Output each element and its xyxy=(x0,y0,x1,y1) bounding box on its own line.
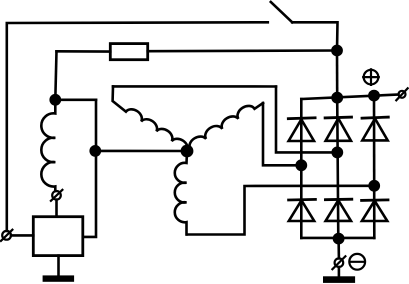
wire: minus bus to ground terminal xyxy=(337,239,340,259)
wire: corner at resistor line down to field winding node xyxy=(55,51,56,100)
wire: resistor line right segment xyxy=(148,49,337,52)
stator phase A winding (upper-left diagonal coil) xyxy=(113,86,188,151)
wire: left outer line (top-left corner down to regulator terminal) xyxy=(7,22,268,231)
wire: terminal to ground xyxy=(338,267,341,278)
node: plus bus col 2 xyxy=(331,92,343,104)
plus bus (top of rectifier) xyxy=(301,95,398,100)
node: regulator sense junction xyxy=(89,145,101,157)
diode column 3 vertical xyxy=(373,96,376,238)
node: phase A to col 2 xyxy=(331,147,343,159)
terminal (plus output) xyxy=(396,88,407,100)
switch SA blade xyxy=(271,2,292,22)
node: plus bus col 3 xyxy=(368,90,380,102)
terminal (minus output) xyxy=(332,256,345,269)
field winding (rotor excitation coil) xyxy=(41,100,55,191)
wire: resistor line left segment xyxy=(57,50,111,53)
diode VD1 (top row, col 1) xyxy=(288,118,315,141)
diode column 2 vertical xyxy=(337,98,338,238)
stator phase B winding (upper-right diagonal coil) xyxy=(189,103,263,149)
wire: terminal to regulator top xyxy=(55,200,58,217)
resistor R xyxy=(110,44,147,60)
wire: phase C to right diode column xyxy=(187,186,374,235)
wire: phase A top line to right corner xyxy=(113,85,276,88)
minus bus (bottom of rectifier) xyxy=(301,237,374,240)
wire: mid node to star point xyxy=(95,150,187,153)
node: phase B to col 1 xyxy=(295,159,307,171)
wire: switch right contact to corner, down to resistor-line junction xyxy=(292,22,337,50)
terminal (field to regulator) xyxy=(51,190,63,201)
voltage regulator box xyxy=(33,217,83,256)
wire: field node to right vertical xyxy=(55,99,96,102)
node: resistor/switch junction xyxy=(331,45,343,57)
node: field winding top junction xyxy=(49,94,61,106)
stator phase C winding (vertical coil below star point) xyxy=(175,151,187,235)
node: phase C to col 3 xyxy=(368,180,380,192)
wire: right vertical down to regulator right side xyxy=(83,100,96,237)
terminal (left line to regulator) xyxy=(1,230,13,241)
diode VD4 (bottom row, col 1) xyxy=(289,199,316,221)
ground (rectifier minus) xyxy=(324,278,354,282)
diode column 1 vertical xyxy=(300,99,303,238)
node: stator star point xyxy=(181,145,194,158)
wire: junction down to plus bus xyxy=(336,51,339,98)
plus polarity sign xyxy=(363,69,379,85)
wire: phase A down and to middle diode column xyxy=(276,87,337,153)
node: minus bus center xyxy=(333,233,345,245)
minus polarity sign xyxy=(349,254,365,270)
diode VD6 (bottom row, col 3) xyxy=(362,200,388,221)
diode VD5 (bottom row, col 2) xyxy=(325,199,351,221)
diode VD3 (top row, col 3) xyxy=(362,117,388,140)
wire: terminal to regulator left side xyxy=(11,234,33,237)
wire: phase B down and to left diode column xyxy=(263,103,301,165)
diode VD2 (top row, col 2) xyxy=(325,117,351,141)
ground (regulator) xyxy=(57,256,60,277)
